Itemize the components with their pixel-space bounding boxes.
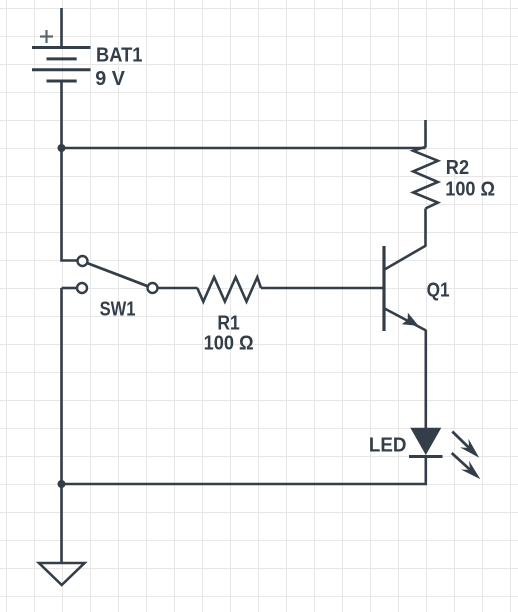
svg-text:SW1: SW1 — [100, 299, 136, 321]
svg-text:100 Ω: 100 Ω — [445, 179, 495, 201]
ground — [39, 563, 85, 585]
svg-text:LED: LED — [369, 434, 407, 456]
wire battery negative down to junction — [60, 81, 63, 148]
svg-text:9 V: 9 V — [95, 68, 125, 90]
wire switch bottom throw down to bottom junction — [60, 288, 63, 484]
svg-text:Q1: Q1 — [427, 279, 450, 301]
node junction dot bottom left — [58, 480, 66, 488]
wire Q1 emitter down to LED anode — [424, 330, 427, 428]
wire horizontal top net to R2 — [62, 147, 426, 150]
svg-text:R1: R1 — [217, 312, 239, 334]
LED diode — [409, 428, 443, 457]
resistor R1 — [197, 277, 261, 301]
wire bottom junction to ground — [60, 484, 63, 563]
wire LED cathode to bottom net — [62, 457, 426, 485]
transistor Q1 — [384, 246, 426, 332]
switch SW1 — [62, 256, 158, 293]
wire R2 bottom to Q1 collector — [424, 209, 427, 247]
battery BAT1 — [32, 48, 91, 82]
svg-text:R2: R2 — [446, 157, 469, 179]
LED emission arrow 2 — [452, 453, 481, 479]
wire SW1 output to R1 — [158, 287, 198, 290]
wire R1 to Q1 base — [261, 287, 384, 290]
node junction dot top left — [58, 144, 66, 152]
battery plus sign — [40, 30, 53, 43]
svg-text:100 Ω: 100 Ω — [204, 333, 254, 355]
wire junction down to switch top elbow — [62, 148, 78, 261]
wire top rail from canvas edge to battery positive plate — [60, 8, 63, 48]
resistor R2 — [413, 147, 438, 209]
LED emission arrow 1 — [452, 432, 479, 458]
svg-text:BAT1: BAT1 — [96, 45, 143, 67]
R2 top lead stub — [424, 120, 427, 148]
